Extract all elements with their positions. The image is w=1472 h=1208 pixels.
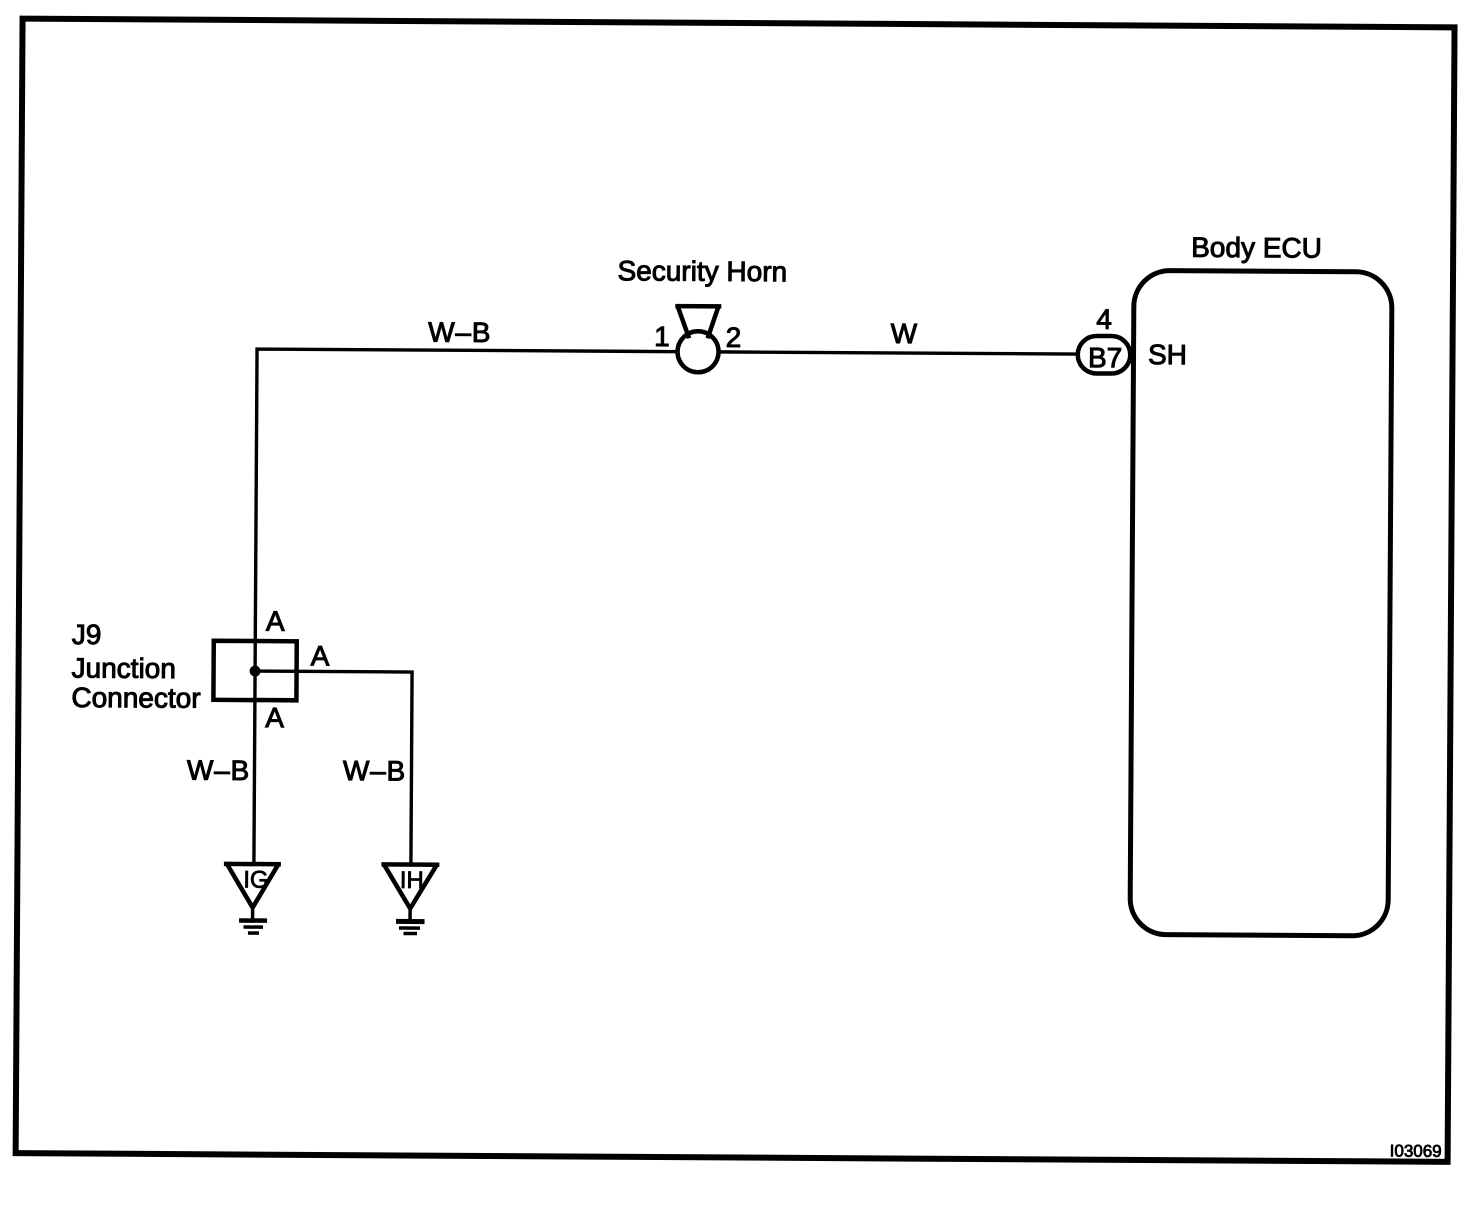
svg-text:W–B: W–B: [187, 755, 250, 786]
svg-text:A: A: [266, 606, 285, 637]
security horn symbol (bell + circle): [675, 306, 721, 372]
wire W-B (ground IG up through junction J9, corner, across to horn pin 1): [254, 349, 679, 866]
connector B7 oval: [1078, 336, 1131, 374]
svg-text:IH: IH: [400, 867, 424, 894]
svg-text:2: 2: [726, 322, 742, 353]
ground IH: [381, 864, 439, 933]
svg-text:B7: B7: [1088, 342, 1122, 373]
svg-text:Security Horn: Security Horn: [617, 255, 787, 287]
svg-text:Body ECU: Body ECU: [1191, 232, 1322, 264]
svg-text:I03069: I03069: [1390, 1142, 1442, 1161]
svg-text:Connector: Connector: [71, 682, 200, 714]
svg-text:W–B: W–B: [343, 755, 406, 786]
svg-text:IG: IG: [243, 866, 269, 893]
Body ECU box: [1130, 270, 1392, 936]
ground IG: [223, 864, 280, 933]
wire W (horn pin 2 to connector B7): [718, 352, 1078, 354]
svg-text:W: W: [891, 318, 918, 349]
svg-text:Junction: Junction: [72, 652, 176, 684]
svg-text:SH: SH: [1148, 339, 1187, 370]
svg-text:J9: J9: [72, 619, 102, 650]
svg-text:4: 4: [1096, 304, 1112, 335]
wire W-B branch (junction node to ground IH): [254, 671, 412, 864]
label J9 Junction Connector: [71, 619, 201, 714]
svg-text:A: A: [265, 702, 284, 733]
junction connector J9 box: [213, 641, 296, 701]
svg-text:1: 1: [654, 321, 670, 352]
svg-text:W–B: W–B: [428, 317, 491, 348]
svg-text:A: A: [311, 640, 330, 671]
node A junction dot: [250, 666, 261, 677]
